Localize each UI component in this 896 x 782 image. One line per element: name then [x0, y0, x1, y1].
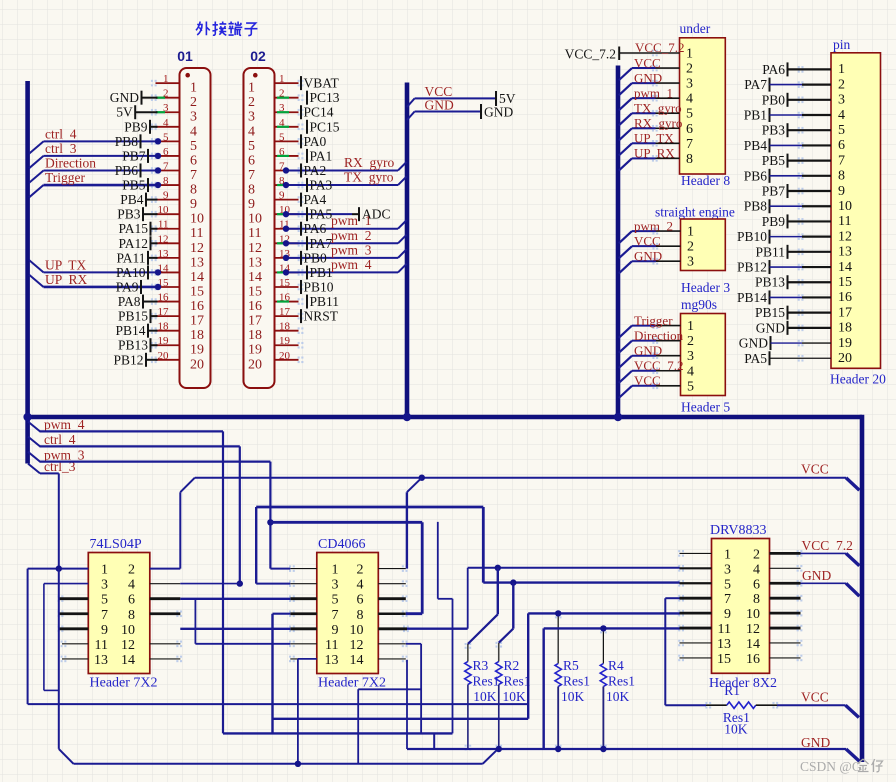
svg-text:GND: GND — [634, 70, 662, 85]
port label NRST pin 17 of 02 — [301, 309, 339, 324]
svg-text:GND: GND — [756, 320, 785, 335]
port label PB9 pin 4 of 01 — [124, 119, 157, 134]
svg-text:PB12: PB12 — [113, 352, 143, 367]
junction R5 bottom — [555, 746, 561, 752]
wire jog y=643.8 to CD4066 pin11 — [195, 643, 290, 645]
wire net GND to straight engine pin 3 — [619, 248, 662, 273]
CD4066 pin number 6 — [357, 593, 364, 608]
resistor R2 — [496, 642, 531, 751]
wire drop x=297.9 — [297, 659, 299, 764]
port label PA12 pin 12 of 01 — [118, 236, 157, 251]
connector 01 pin 1 — [151, 73, 197, 96]
header U_under pin 1 — [652, 47, 693, 62]
header U_pin pin 10 — [838, 199, 852, 214]
svg-text:PA9: PA9 — [116, 279, 139, 294]
CD4066 pin number 10 — [350, 623, 364, 638]
connector 01 pin 10 — [151, 204, 204, 227]
port label PA6 to pin header pin 1 — [762, 62, 831, 77]
svg-text:17: 17 — [190, 314, 204, 329]
connector 01 pin 5 — [151, 131, 197, 154]
svg-text:PB8: PB8 — [744, 199, 768, 214]
port label PB14 pin 18 of 01 — [115, 323, 157, 338]
svg-text:8: 8 — [838, 169, 845, 184]
header U_straight_engine pin 3 — [652, 255, 694, 270]
header U_under title — [680, 21, 711, 36]
svg-text:12: 12 — [746, 622, 760, 637]
svg-text:12: 12 — [158, 233, 169, 245]
svg-text:18: 18 — [248, 328, 262, 343]
svg-text:PB13: PB13 — [755, 275, 785, 290]
svg-text:19: 19 — [158, 335, 170, 347]
svg-text:5: 5 — [279, 131, 285, 143]
DRV8833 pin 4 stub — [770, 565, 803, 572]
DRV8833 pin number 9 — [724, 607, 731, 622]
DRV8833 pin 6 stub — [770, 580, 803, 587]
wire net G to CD4066 pin 3 — [256, 583, 290, 585]
CD4066 pin 5 stub — [289, 595, 317, 602]
net label ctrl_4 — [28, 432, 76, 447]
wire pwm_3 vertical x=270.4 — [269, 462, 271, 569]
wire R1 bus entry — [846, 705, 859, 717]
header U_pin title — [833, 37, 851, 52]
DRV8833 pin 2 stub — [770, 550, 803, 557]
74LS04P pin 7 stub — [58, 610, 89, 617]
DRV8833 pin number 8 — [753, 592, 760, 607]
wire R3 net y=567.8 to DRV8833 pin 3 — [468, 567, 680, 569]
IC 74LS04P name — [90, 676, 158, 691]
svg-text:9: 9 — [101, 623, 108, 638]
svg-text:PB13: PB13 — [118, 338, 148, 353]
CD4066 pin 14 stub — [378, 656, 407, 663]
bus vertical left — [25, 81, 30, 464]
wire net RX_gyro from 02 pin 7 to bus — [286, 155, 407, 171]
svg-text:PB5: PB5 — [122, 178, 146, 193]
74LS04P pin number 4 — [128, 578, 135, 593]
connector 01 body — [180, 68, 211, 388]
header U_mg90s pin 3 — [652, 349, 694, 364]
power port 5V with net label VCC — [407, 84, 516, 107]
connector 02 pin 4 — [248, 117, 303, 140]
svg-text:UP RX: UP RX — [634, 146, 675, 161]
svg-text:10: 10 — [350, 623, 364, 638]
DRV8833 pin number 1 — [724, 547, 731, 562]
74LS04P pin 4 stub — [150, 583, 181, 585]
svg-text:3: 3 — [248, 110, 255, 125]
svg-text:VCC 7.2: VCC 7.2 — [802, 538, 853, 553]
svg-text:5: 5 — [687, 379, 694, 394]
wire net GND to under pin 3 — [619, 70, 662, 95]
wire R3 net y=628.7 — [407, 628, 468, 630]
svg-text:PB9: PB9 — [762, 214, 786, 229]
DRV8833 pin number 6 — [753, 577, 760, 592]
svg-text:02: 02 — [250, 48, 266, 64]
net label pwm_4 — [28, 417, 85, 432]
port label PC13 pin 2 of 02 — [307, 90, 340, 105]
svg-text:5: 5 — [724, 577, 731, 592]
wire diagonal to GND rail — [483, 749, 498, 764]
svg-text:PA5: PA5 — [744, 351, 767, 366]
CD4066 pin 10 stub — [378, 626, 409, 633]
IC DRV8833 body — [712, 539, 770, 674]
CD4066 pin number 5 — [332, 593, 339, 608]
74LS04P pin 9 stub — [58, 626, 89, 633]
svg-text:UP TX: UP TX — [45, 258, 87, 273]
wire VCC net riser x=180.3 — [179, 492, 181, 568]
port label PA2 pin 7 of 02 — [301, 163, 326, 178]
port label PA3 pin 8 of 02 — [307, 178, 333, 193]
net label pwm_3 — [28, 447, 85, 462]
port label PB3 pin 10 of 01 — [117, 207, 157, 222]
svg-text:PB10: PB10 — [737, 229, 767, 244]
header U_straight_engine body — [681, 219, 726, 271]
wire long y=763.8 — [74, 763, 483, 765]
header U_mg90s pin 2 — [652, 334, 694, 349]
wire net Direction to 01 pin 7 — [29, 156, 156, 183]
wire vertical x=272.5 (CD4066 pin7 riser) — [271, 614, 273, 734]
header U_under name — [681, 173, 730, 188]
port label PB10 pin 15 of 02 — [301, 279, 334, 294]
svg-text:1: 1 — [101, 563, 108, 578]
connector 02 polarity dot — [253, 73, 258, 78]
svg-text:Res1: Res1 — [473, 674, 500, 689]
DRV8833 pin number 5 — [724, 577, 731, 592]
CD4066 pin number 2 — [357, 563, 364, 578]
wire R3 drop x=497.8 — [497, 568, 499, 615]
svg-text:2: 2 — [248, 95, 255, 110]
svg-text:11: 11 — [190, 226, 203, 241]
wire pwm_4 vertical x=223 — [222, 431, 224, 733]
IC DRV8833 title — [710, 523, 766, 538]
port label PB8 pin 5 of 01 — [115, 134, 141, 149]
port label PB13 pin 19 of 01 — [118, 338, 158, 353]
port label PB3 to pin header pin 5 — [762, 123, 831, 138]
svg-text:GND: GND — [484, 105, 513, 120]
junction UP_TX at pin — [155, 269, 161, 275]
connector 01 pin 18 — [151, 321, 204, 344]
svg-text:17: 17 — [279, 306, 291, 318]
net label ctrl_3 — [28, 459, 76, 474]
port label PB5 to pin header pin 7 — [762, 153, 831, 168]
svg-text:15: 15 — [717, 652, 731, 667]
wire VCC net bus entry — [846, 478, 859, 491]
port label 5V pin 3 of 01 — [116, 105, 157, 120]
bus vertical x=618 — [616, 66, 621, 420]
connector 02 body — [244, 68, 275, 388]
svg-text:under: under — [680, 21, 711, 36]
svg-text:3: 3 — [724, 562, 731, 577]
svg-text:1: 1 — [248, 81, 255, 96]
connector 01 pin 19 — [151, 335, 204, 358]
wire net RX_gyro to under pin 6 — [619, 115, 683, 140]
DRV8833 pin number 14 — [746, 637, 760, 652]
svg-text:PA12: PA12 — [118, 236, 148, 251]
wire vertical x=437.8 — [437, 522, 439, 599]
wire R5 net y=718.8 — [273, 718, 529, 720]
74LS04P pin number 7 — [101, 608, 108, 623]
port label PB1 to pin header pin 4 — [744, 108, 831, 123]
wire drop x=358.2 — [357, 689, 359, 764]
svg-text:74LS04P: 74LS04P — [90, 537, 142, 552]
junction trunk-left — [23, 413, 31, 421]
svg-text:pwm 2: pwm 2 — [634, 218, 673, 233]
svg-text:GND: GND — [801, 735, 830, 750]
connector 02 pin 12 — [248, 233, 303, 256]
svg-text:7: 7 — [190, 168, 197, 183]
junction trunk-x618 — [614, 413, 622, 421]
svg-text:18: 18 — [158, 321, 170, 333]
svg-text:Res1: Res1 — [563, 674, 590, 689]
wire R5 net drop x=528.2 — [527, 613, 529, 718]
port label PA8 pin 16 of 01 — [118, 294, 158, 309]
connector 01 pin 17 — [151, 306, 204, 329]
wire R4 net y=628.4 to DRV8833 pin 11 — [544, 627, 680, 629]
svg-text:Header 7X2: Header 7X2 — [90, 676, 158, 691]
connector 02 pin 5 — [248, 131, 303, 154]
wire R4 net drop x=543.7 — [543, 628, 545, 749]
DRV8833 pin 8 stub — [770, 595, 803, 602]
svg-text:18: 18 — [190, 328, 204, 343]
header U_straight_engine pin 1 — [652, 225, 694, 240]
svg-text:PA4: PA4 — [304, 192, 327, 207]
svg-text:8: 8 — [753, 592, 760, 607]
DRV8833 pin number 4 — [753, 562, 760, 577]
connector 01 pin 13 — [151, 248, 204, 271]
junction R2 bottom — [496, 746, 502, 752]
connector 01 pin 2 — [151, 88, 197, 111]
DRV8833 pin 9 stub — [678, 610, 711, 617]
wire 74LS04P pin3 west — [44, 583, 88, 585]
wire ctrl_3 jog y=598.8 — [438, 598, 453, 600]
connector 02 pin 20 — [248, 350, 303, 373]
wire VCC_7.2 from DRV8833 pin2 — [801, 552, 847, 554]
port label PA5 to pin header pin 20 — [744, 351, 831, 366]
svg-text:16: 16 — [838, 290, 852, 305]
bus vertical middle x=407 — [405, 83, 410, 418]
CD4066 pin number 11 — [325, 638, 338, 653]
svg-text:PA7: PA7 — [310, 236, 333, 251]
svg-text:PA6: PA6 — [304, 221, 327, 236]
CD4066 pin number 13 — [325, 653, 339, 668]
wire net UP_RX to under pin 8 — [619, 146, 676, 171]
connector 01 pin 9 — [151, 190, 197, 213]
svg-text:R2: R2 — [504, 658, 520, 673]
port ADC at 02 pin 10 — [286, 207, 391, 222]
svg-text:11: 11 — [248, 226, 261, 241]
wire ctrl_4 vertical x=239.8 — [239, 446, 241, 583]
wire pwm_4 horizontal — [40, 430, 224, 432]
svg-text:3: 3 — [687, 255, 694, 270]
header U_pin pin 7 — [838, 153, 845, 168]
wire net G y=582.6 to DRV8833 pin 5 — [483, 581, 679, 583]
svg-text:3: 3 — [101, 578, 108, 593]
svg-text:PB6: PB6 — [115, 163, 139, 178]
svg-text:CD4066: CD4066 — [318, 537, 365, 552]
svg-text:ctrl 4: ctrl 4 — [44, 432, 76, 447]
DRV8833 pin 11 stub — [678, 625, 711, 632]
header U_mg90s body — [681, 314, 726, 396]
svg-text:16: 16 — [248, 299, 262, 314]
svg-text:10: 10 — [248, 212, 262, 227]
port label PA6 pin 11 of 02 — [301, 221, 327, 236]
title 外接端子 (external terminals) — [196, 22, 258, 36]
svg-text:20: 20 — [248, 357, 262, 372]
svg-text:PB3: PB3 — [762, 123, 786, 138]
header U_pin pin 6 — [838, 138, 845, 153]
junction ctrl_4 at pin — [155, 138, 161, 144]
CD4066 pin 13 stub — [289, 656, 317, 663]
net label VCC (bottom right) — [801, 690, 829, 705]
svg-text:PB14: PB14 — [737, 290, 767, 305]
CD4066 pin 11 stub — [289, 641, 317, 648]
svg-text:Header 3: Header 3 — [681, 280, 730, 295]
svg-text:Trigger: Trigger — [45, 170, 86, 185]
wire diagonal bottom left — [59, 749, 74, 764]
wire drop x=43.9 — [43, 584, 45, 691]
svg-text:Res1: Res1 — [608, 674, 635, 689]
port label PC15 pin 4 of 02 — [307, 119, 340, 134]
svg-text:10K: 10K — [473, 689, 497, 704]
svg-text:15: 15 — [248, 284, 262, 299]
DRV8833 pin number 15 — [717, 652, 731, 667]
svg-text:2: 2 — [838, 77, 845, 92]
IC CD4066 title — [318, 537, 365, 552]
header U_mg90s title — [681, 297, 717, 312]
74LS04P pin number 12 — [121, 638, 135, 653]
DRV8833 pin number 3 — [724, 562, 731, 577]
svg-text:3: 3 — [687, 349, 694, 364]
svg-text:6: 6 — [838, 138, 845, 153]
connector 01 pin 15 — [151, 277, 204, 300]
wire segment y=733.3 — [223, 732, 453, 734]
header U_under pin 7 — [652, 137, 693, 152]
svg-text:3: 3 — [332, 578, 339, 593]
port label PB0 to pin header pin 3 — [762, 92, 831, 107]
svg-text:7: 7 — [724, 592, 731, 607]
svg-text:15: 15 — [279, 277, 291, 289]
header U_straight_engine pin 2 — [652, 240, 694, 255]
74LS04P pin number 11 — [95, 638, 108, 653]
wire GND bus entry — [846, 583, 859, 596]
svg-text:pwm 3: pwm 3 — [331, 242, 372, 257]
svg-text:PC14: PC14 — [304, 105, 334, 120]
wire R2 diagonal — [499, 629, 514, 643]
svg-text:1: 1 — [724, 547, 731, 562]
svg-text:PB7: PB7 — [122, 148, 146, 163]
74LS04P pin 12 stub — [150, 641, 182, 648]
svg-text:PB11: PB11 — [310, 294, 340, 309]
svg-text:VBAT: VBAT — [304, 76, 340, 91]
junction Direction at pin — [155, 167, 161, 173]
svg-text:Res1: Res1 — [504, 674, 531, 689]
junction R4 bottom — [600, 746, 606, 752]
CD4066 pin number 8 — [357, 608, 364, 623]
junction at bottom wire — [295, 761, 301, 767]
junction trunk-middle — [403, 413, 411, 421]
svg-text:13: 13 — [190, 255, 204, 270]
port label PB8 to pin header pin 10 — [744, 199, 831, 214]
connector 02 pin 2 — [248, 88, 303, 111]
port label PB15 to pin header pin 17 — [755, 305, 831, 320]
junction Trigger at pin — [155, 182, 161, 188]
port label PB7 to pin header pin 9 — [762, 184, 831, 199]
svg-text:17: 17 — [158, 306, 170, 318]
connector 01 pin 16 — [151, 292, 204, 315]
svg-text:mg90s: mg90s — [681, 297, 717, 312]
connector 01 pin 8 — [151, 175, 197, 198]
wire net pwm_2 to straight engine pin 1 — [619, 218, 673, 243]
svg-text:RX gyro: RX gyro — [344, 155, 394, 170]
svg-text:13: 13 — [838, 245, 852, 260]
port label PB0 pin 13 of 02 — [301, 250, 327, 265]
DRV8833 pin 16 stub — [770, 655, 803, 662]
connector 02 pin 14 — [248, 262, 303, 285]
svg-text:4: 4 — [163, 117, 169, 129]
connector 01 polarity dot — [185, 73, 190, 78]
svg-text:CSDN @G: CSDN @G — [800, 759, 862, 774]
svg-text:VCC: VCC — [634, 373, 661, 388]
wire VCC_7.2 bus entry — [846, 553, 859, 565]
svg-text:6: 6 — [248, 153, 255, 168]
wire ctrl_3 vertical x=452.5 — [452, 599, 454, 734]
svg-text:PA2: PA2 — [304, 163, 327, 178]
svg-text:VCC_7.2: VCC_7.2 — [565, 47, 616, 62]
junction 74LS04P pin1 — [56, 565, 62, 571]
CD4066 pin 6 stub — [378, 595, 407, 602]
wire pwm_3 branch y=522.3 — [270, 521, 422, 524]
svg-text:7: 7 — [163, 160, 169, 172]
svg-text:19: 19 — [838, 336, 852, 351]
connector 02 pin 10 — [248, 204, 303, 227]
svg-text:15: 15 — [838, 275, 852, 290]
header U_pin pin 18 — [838, 321, 852, 336]
wire DRV8833 pin7 link — [665, 597, 679, 599]
wire to CD4066 pin 7 — [273, 613, 291, 615]
IC CD4066 body — [317, 553, 379, 674]
svg-text:4: 4 — [128, 578, 135, 593]
IC DRV8833 name — [709, 676, 777, 691]
wire net pwm_3 from 02 pin 13 to bus — [286, 242, 407, 257]
svg-text:5: 5 — [686, 107, 693, 122]
74LS04P pin 5 stub — [58, 595, 89, 602]
connector 02 pin 16 — [248, 292, 303, 315]
power port VCC_7.2 to under pin 1 — [565, 40, 685, 62]
DRV8833 pin number 2 — [753, 547, 760, 562]
svg-text:12: 12 — [190, 241, 204, 256]
DRV8833 pin 7 stub — [678, 595, 711, 602]
74LS04P pin number 10 — [121, 623, 135, 638]
svg-text:1: 1 — [838, 62, 845, 77]
svg-text:8: 8 — [686, 152, 693, 167]
svg-text:PB7: PB7 — [762, 184, 786, 199]
connector 02 pin 7 — [248, 160, 303, 183]
header U_mg90s name — [681, 400, 730, 415]
74LS04P pin number 13 — [94, 653, 108, 668]
svg-text:7: 7 — [248, 168, 255, 183]
port label PB7 pin 6 of 01 — [122, 148, 148, 163]
connector 02 pin 13 — [248, 248, 303, 271]
DRV8833 pin 14 stub — [770, 640, 803, 647]
svg-text:7: 7 — [332, 608, 339, 623]
svg-text:1: 1 — [686, 47, 693, 62]
svg-text:5: 5 — [248, 139, 255, 154]
svg-text:9: 9 — [190, 197, 197, 212]
svg-text:1: 1 — [332, 563, 339, 578]
CD4066 pin 7 stub — [289, 610, 317, 617]
svg-text:4: 4 — [190, 124, 197, 139]
port label PB12 to pin header pin 14 — [737, 260, 831, 275]
svg-text:01: 01 — [177, 48, 193, 64]
connector 02 pin 1 — [248, 73, 303, 96]
